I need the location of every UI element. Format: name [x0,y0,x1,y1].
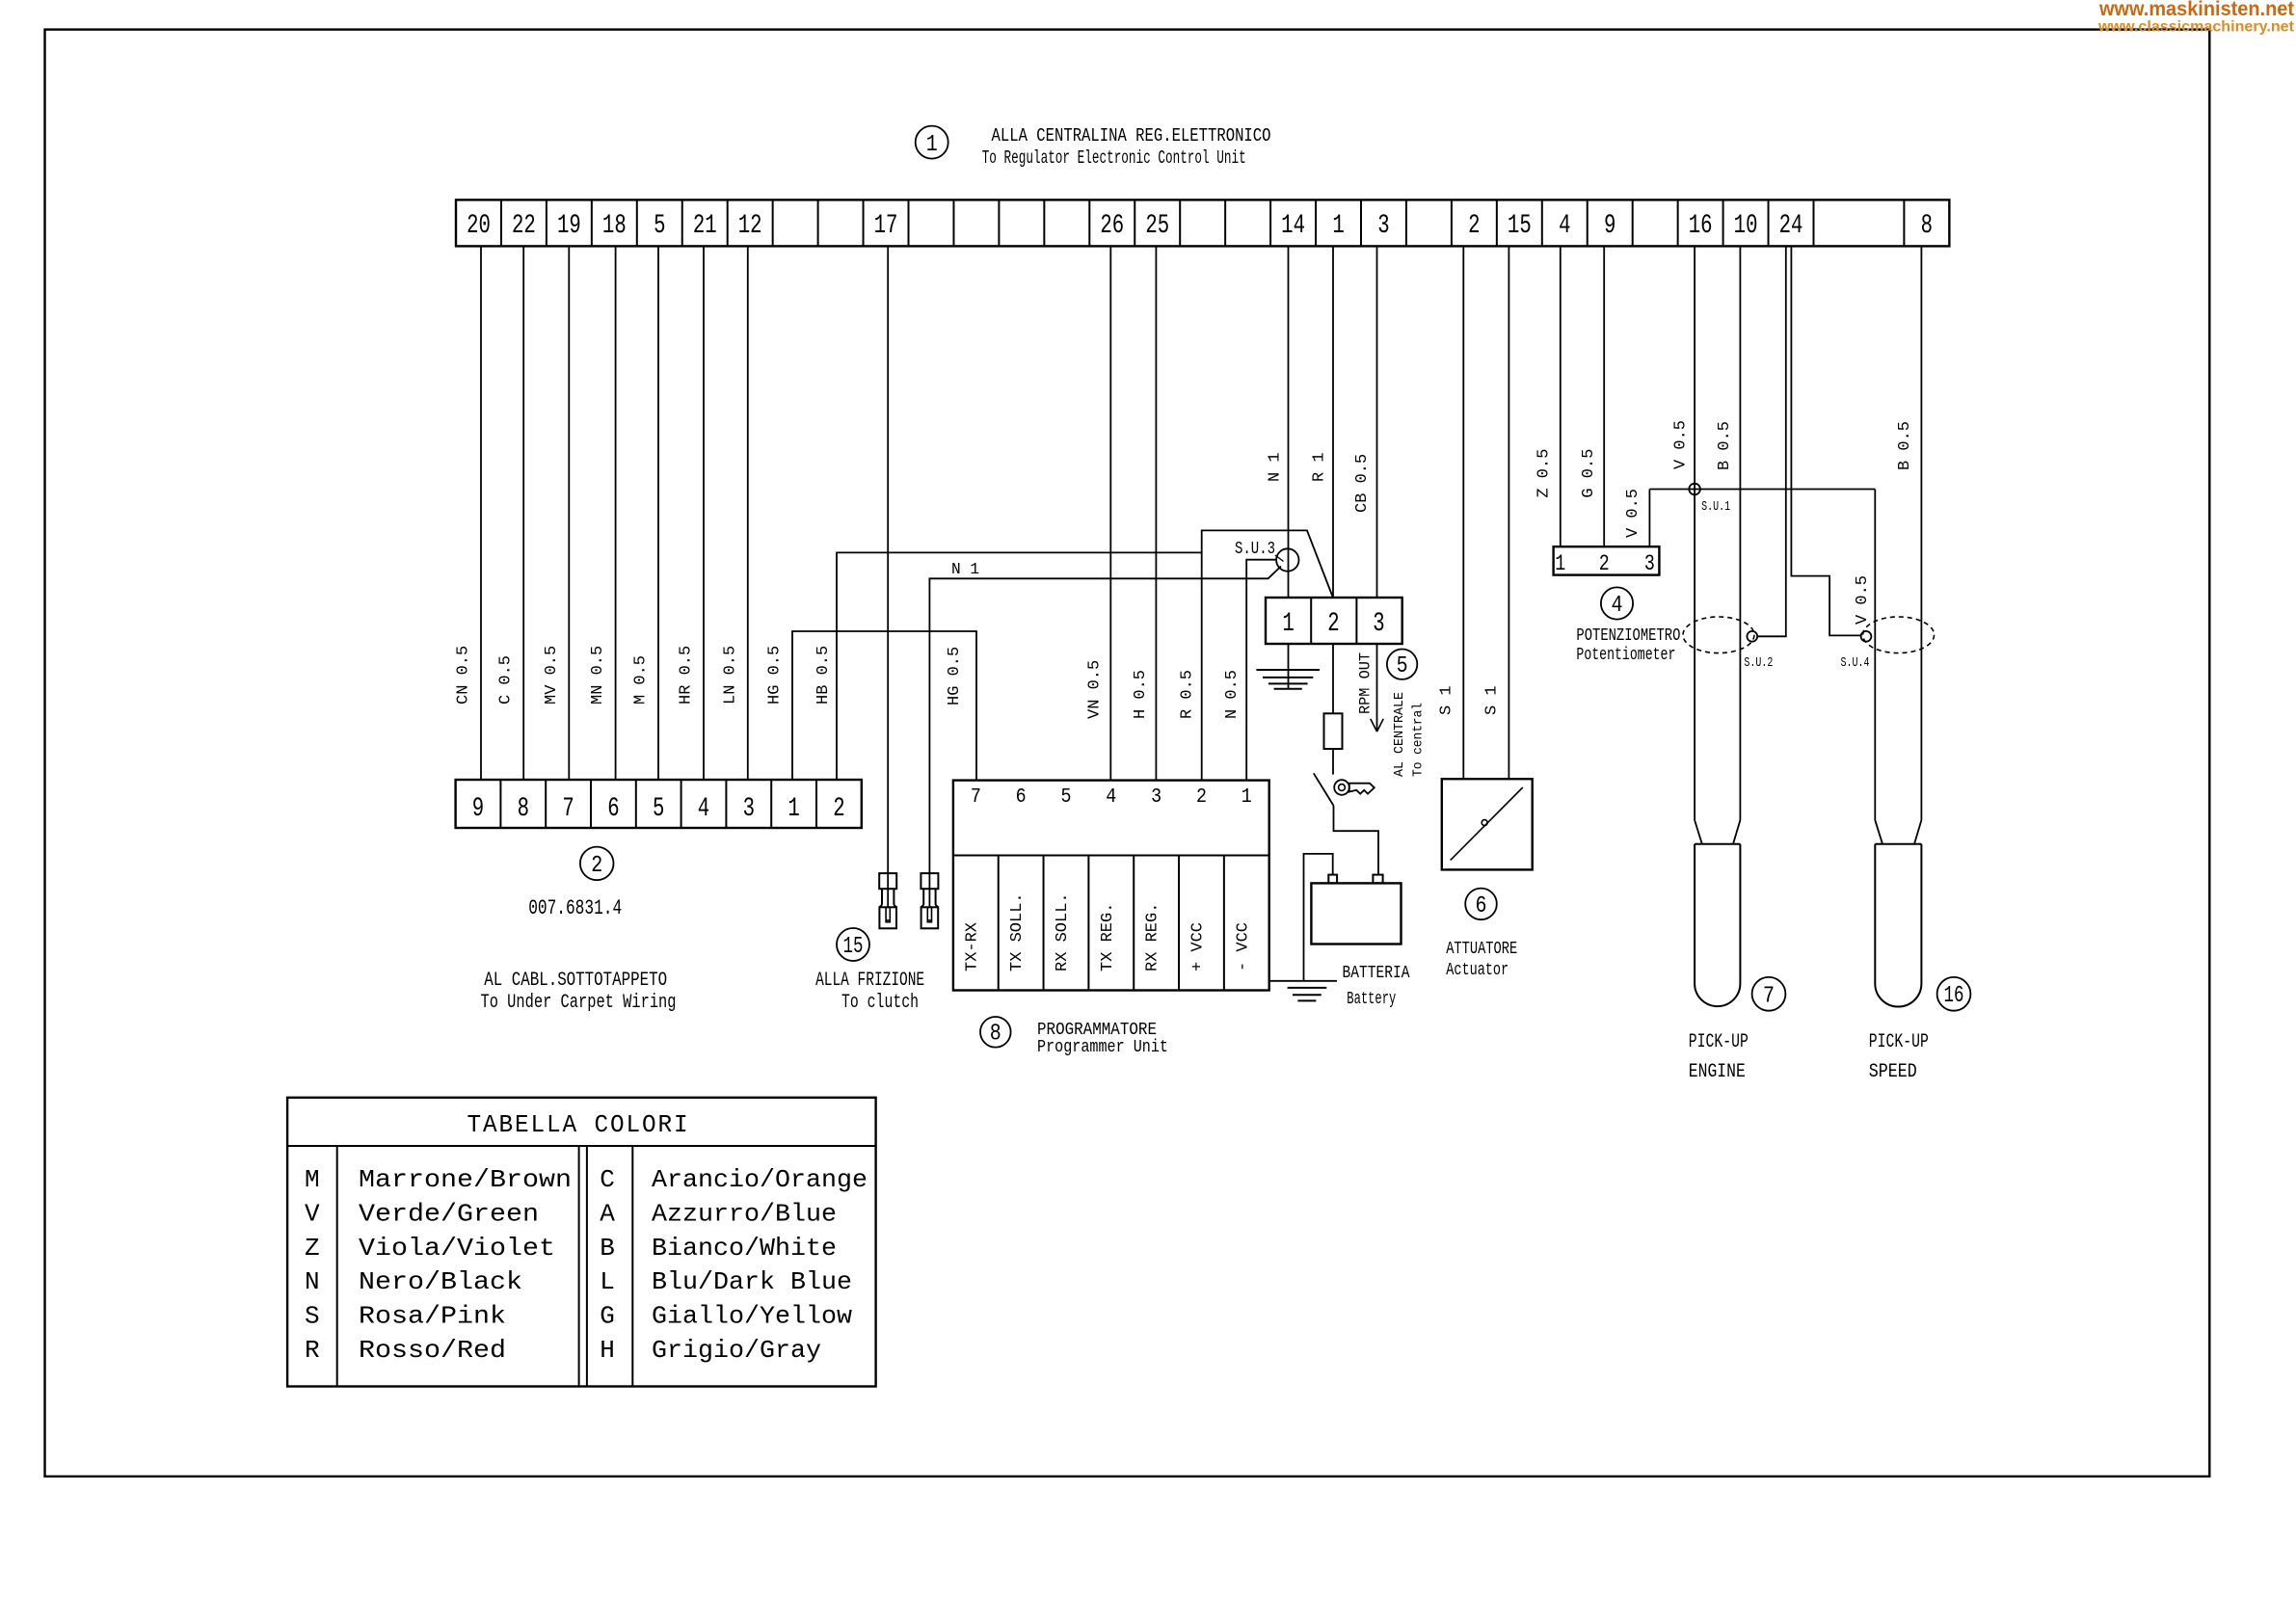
svg-text:S.U.3: S.U.3 [1235,540,1275,559]
label ATTUATORE [1446,940,1517,959]
svg-text:2: 2 [591,853,602,879]
callout circle 7 [1752,977,1786,1011]
svg-text:Nero/Black: Nero/Black [359,1267,522,1296]
programmer unit U8 connector [953,781,1269,991]
svg-text:2: 2 [1327,609,1339,639]
label ALLA FRIZIONE [815,970,924,992]
svg-text:2: 2 [833,794,844,824]
svg-text:AL CABL.SOTTOTAPPETO: AL CABL.SOTTOTAPPETO [484,970,667,992]
faston terminal A to clutch [879,873,896,928]
svg-text:Z 0.5: Z 0.5 [1535,449,1554,498]
svg-text:V 0.5: V 0.5 [1624,489,1642,538]
svg-text:TX REG.: TX REG. [1099,903,1117,971]
svg-text:N: N [305,1267,320,1296]
svg-text:Blu/Dark Blue: Blu/Dark Blue [652,1267,852,1296]
svg-text:N 1: N 1 [951,561,979,579]
junction S.U.4 [1841,631,1872,671]
wire G 0.5 pin9 to potentiometer pin2 [1580,246,1604,546]
wire N 0.5 programmer pin1 to junction S.U.3 [1223,560,1276,781]
svg-text:2: 2 [1468,211,1480,241]
svg-text:Giallo/Yellow: Giallo/Yellow [652,1302,852,1331]
label ENGINE [1689,1061,1746,1083]
svg-text:S.U.1: S.U.1 [1701,499,1730,515]
svg-text:Rosa/Pink: Rosa/Pink [359,1302,506,1331]
svg-text:Azzurro/Blue: Azzurro/Blue [652,1199,837,1228]
wire V 0.5 potentiometer pin3 to junction S.U.1 [1624,489,1649,546]
junction S.U.2 [1744,631,1773,671]
svg-text:RX REG.: RX REG. [1144,903,1162,971]
svg-text:C: C [600,1165,615,1194]
wire programmer -VCC to ground [1269,980,1337,982]
svg-text:HR 0.5: HR 0.5 [678,646,696,705]
color table TABELLA COLORI [287,1098,876,1387]
svg-text:S.U.4: S.U.4 [1841,655,1870,671]
svg-text:L: L [600,1267,615,1296]
svg-text:4: 4 [1106,786,1116,809]
svg-text:H 0.5: H 0.5 [1132,670,1150,719]
svg-text:PICK-UP: PICK-UP [1689,1031,1749,1053]
svg-text:5: 5 [654,211,665,241]
svg-text:Actuator: Actuator [1446,961,1508,980]
junction S.U.1 [1689,484,1730,515]
label SPEED [1869,1061,1917,1083]
label BATTERIA [1343,964,1410,983]
svg-text:V 0.5: V 0.5 [1672,420,1691,469]
svg-text:C 0.5: C 0.5 [497,655,516,705]
svg-text:1: 1 [1332,211,1344,241]
svg-text:3: 3 [743,794,755,824]
label Battery [1347,990,1396,1009]
label To Under Carpet Wiring [481,992,677,1014]
svg-text:V: V [305,1199,320,1228]
pickup speed coil oval [1863,617,1935,653]
svg-text:SPEED: SPEED [1869,1061,1917,1083]
wire N 1 clutch terminal to junction S.U.3 [929,561,1281,873]
svg-text:To Under Carpet Wiring: To Under Carpet Wiring [481,992,677,1014]
svg-text:POTENZIOMETRO: POTENZIOMETRO [1576,626,1680,646]
svg-text:Marrone/Brown: Marrone/Brown [359,1165,572,1194]
callout circle 16 [1937,977,1971,1011]
wire pin24 to junction S.U.2 [1757,246,1786,636]
svg-text:Rosso/Red: Rosso/Red [359,1336,506,1365]
svg-text:TX-RX: TX-RX [963,922,981,971]
svg-text:RPM OUT: RPM OUT [1357,652,1375,714]
svg-text:15: 15 [1508,211,1532,241]
svg-text:9: 9 [472,794,484,824]
label Potentiometer [1576,646,1675,665]
junction S.U.3 [1235,540,1299,572]
wire Z 0.5 pin4 to potentiometer pin1 [1535,246,1561,546]
label Actuator [1446,961,1508,980]
svg-text:- VCC: - VCC [1234,922,1252,971]
svg-text:TX SOLL.: TX SOLL. [1008,892,1027,971]
wire S 1 pin2 to actuator [1438,246,1464,779]
wire B 0.5 pin8 to pickup speed [1896,246,1921,820]
svg-text:R 0.5: R 0.5 [1179,670,1197,719]
svg-text:Bianco/White: Bianco/White [652,1234,837,1263]
svg-text:19: 19 [557,211,581,241]
svg-text:LN 0.5: LN 0.5 [721,646,739,705]
key switch S1 blade [1314,773,1334,806]
svg-text:MN 0.5: MN 0.5 [589,646,607,705]
label 007.6831.4 [528,896,622,920]
callout circle 15 [837,928,869,961]
svg-text:M: M [305,1165,320,1194]
key symbol [1334,780,1375,795]
svg-text:Programmer Unit: Programmer Unit [1037,1038,1168,1057]
svg-text:25: 25 [1145,211,1169,241]
svg-text:7: 7 [562,794,574,824]
fuse F1 [1324,644,1343,775]
wire B 0.5 pin10 to pickup engine [1716,246,1740,820]
svg-text:+ VCC: + VCC [1188,922,1207,971]
svg-text:4: 4 [698,794,709,824]
svg-text:S 1: S 1 [1438,685,1456,715]
wire M 0.5 pin5-pin5 [632,246,659,780]
battery B1 [1311,875,1401,945]
svg-text:16: 16 [1689,211,1713,241]
potentiometer R4 connector [1554,546,1660,576]
svg-text:To Regulator Electronic Contro: To Regulator Electronic Control Unit [982,147,1246,169]
svg-text:007.6831.4: 007.6831.4 [528,896,622,920]
svg-text:Battery: Battery [1347,990,1396,1009]
svg-text:Viola/Violet: Viola/Violet [359,1234,555,1263]
title ALLA CENTRALINA [992,125,1271,146]
title To Regulator [982,147,1246,169]
wire HR 0.5 pin21-pin4 [678,246,705,780]
svg-text:BATTERIA: BATTERIA [1343,964,1410,983]
svg-text:3: 3 [1644,551,1655,576]
svg-text:ATTUATORE: ATTUATORE [1446,940,1517,959]
label To central [1411,703,1427,777]
svg-text:5: 5 [1397,653,1408,679]
svg-text:14: 14 [1281,211,1305,241]
svg-text:www.classicmachinery.net: www.classicmachinery.net [2097,19,2295,36]
pickup speed probe body [1875,820,1921,1007]
svg-text:Potentiometer: Potentiometer [1576,646,1675,665]
wire R 0.5 programmer pin2 to battery node [1179,552,1202,780]
svg-text:RX SOLL.: RX SOLL. [1054,892,1072,971]
svg-text:V 0.5: V 0.5 [1854,575,1872,625]
svg-text:20: 20 [467,211,491,241]
actuator M6 box [1442,779,1533,869]
callout circle 1 [916,126,948,159]
wire CN 0.5 pin20-pin9 [455,246,482,780]
svg-text:S: S [305,1302,320,1331]
svg-text:N 0.5: N 0.5 [1223,670,1241,719]
wire key switch to battery + [1334,806,1379,875]
wire V 0.5 pin16 to pickup engine [1672,246,1695,820]
svg-text:R 1: R 1 [1311,452,1329,482]
svg-text:3: 3 [1151,786,1161,809]
svg-text:1: 1 [1282,609,1294,639]
svg-text:24: 24 [1779,211,1803,241]
svg-text:8: 8 [990,1022,1001,1048]
callout circle 6 [1465,889,1497,920]
svg-text:A: A [600,1199,615,1228]
svg-text:To central: To central [1411,703,1427,777]
svg-text:www.maskinisten.net: www.maskinisten.net [2098,0,2294,20]
website watermark maskinisten [2098,0,2294,20]
svg-text:B 0.5: B 0.5 [1716,421,1734,470]
wire N 1 pin14 to connector3 pin1 [1267,246,1289,598]
svg-text:6: 6 [1016,786,1027,809]
svg-text:4: 4 [1559,211,1570,241]
wire pin24 to junction S.U.4 [1791,246,1872,635]
wire CB 0.5 pin3 to connector3 pin3 [1353,246,1377,598]
wire LN 0.5 pin12-pin3 [721,246,748,780]
label PROGRAMMATORE [1037,1021,1157,1040]
svg-text:8: 8 [518,794,529,824]
svg-text:3: 3 [1373,609,1384,639]
svg-text:VN 0.5: VN 0.5 [1086,660,1105,719]
callout circle 2 [580,847,614,881]
svg-text:21: 21 [693,211,717,241]
svg-text:5: 5 [1060,786,1071,809]
connector X2 under-carpet 007.6831.4 [456,780,862,828]
svg-text:Z: Z [305,1234,320,1263]
svg-text:1: 1 [1555,551,1565,576]
svg-text:1: 1 [926,132,938,158]
svg-text:3: 3 [1377,211,1389,241]
svg-text:9: 9 [1604,211,1615,241]
svg-text:6: 6 [607,794,619,824]
callout circle 8 [980,1017,1011,1048]
callout circle 5 [1387,650,1417,680]
pickup engine probe body [1695,820,1740,1006]
svg-text:HB 0.5: HB 0.5 [814,646,833,705]
wire battery - to ground [1304,854,1333,981]
svg-text:G: G [600,1302,615,1331]
label To clutch [841,992,919,1014]
svg-text:PICK-UP: PICK-UP [1869,1031,1929,1053]
svg-text:1: 1 [1241,786,1252,809]
svg-text:7: 7 [971,786,981,809]
svg-text:17: 17 [874,211,898,241]
wire MV 0.5 pin19-pin7 [543,246,570,780]
wire HG 0.5 connector2 pin1 to programmer pin7 [766,631,977,781]
wire V 0.5 junction S.U.1 bus [1649,489,1875,491]
label PICK-UP speed [1869,1031,1929,1053]
svg-text:CB 0.5: CB 0.5 [1353,454,1372,513]
faston terminal B to clutch [921,873,938,928]
wire H 0.5 pin25 to programmer pin3 [1132,246,1156,780]
svg-text:HG 0.5: HG 0.5 [766,646,785,705]
svg-text:M 0.5: M 0.5 [632,655,651,705]
svg-text:HG 0.5: HG 0.5 [946,647,964,705]
svg-text:MV 0.5: MV 0.5 [543,646,561,705]
svg-text:18: 18 [602,211,627,241]
pickup engine coil oval [1683,617,1754,653]
svg-text:6: 6 [1476,893,1487,919]
svg-text:AL CENTRALE: AL CENTRALE [1392,692,1407,777]
svg-text:10: 10 [1734,211,1758,241]
wire V 0.5 junction S.U.1 to pickup speed [1874,490,1876,821]
svg-text:S 1: S 1 [1483,685,1502,715]
connector X3 (1 2 3) [1266,598,1402,644]
svg-text:4: 4 [1612,593,1623,619]
svg-text:Grigio/Gray: Grigio/Gray [652,1336,821,1365]
wire HB 0.5 connector2 pin2 to connector3 pin2 [814,530,1333,780]
label POTENZIOMETRO [1576,626,1680,646]
svg-text:ENGINE: ENGINE [1689,1061,1746,1083]
svg-text:PROGRAMMATORE: PROGRAMMATORE [1037,1021,1157,1040]
ground (battery) [1288,988,1327,1001]
svg-text:2: 2 [1196,786,1207,809]
label AL CENTRALE [1392,692,1407,777]
wire MN 0.5 pin18-pin6 [589,246,616,780]
svg-text:S.U.2: S.U.2 [1744,655,1773,671]
callout circle 4 [1601,587,1633,619]
wire S 1 pin15 to actuator [1483,246,1509,779]
svg-text:15: 15 [843,934,864,960]
label Programmer Unit [1037,1038,1168,1057]
svg-text:26: 26 [1100,211,1124,241]
svg-text:H: H [600,1336,615,1365]
svg-text:Arancio/Orange: Arancio/Orange [652,1165,868,1194]
wire C 0.5 pin22-pin8 [497,246,524,780]
label AL CABL.SOTTOTAPPETO [484,970,667,992]
ground (connector3 pin1) [1256,644,1320,689]
svg-text:N 1: N 1 [1267,452,1285,482]
svg-text:ALLA CENTRALINA REG.ELETTRONIC: ALLA CENTRALINA REG.ELETTRONICO [992,125,1271,146]
svg-text:7: 7 [1763,984,1775,1010]
website watermark classicmachinery [2097,19,2295,36]
wire RPM OUT (connector3 pin3 to central) [1357,644,1384,732]
wire VN 0.5 pin26 to programmer pin4 [1086,246,1111,780]
svg-text:G 0.5: G 0.5 [1580,449,1598,498]
svg-text:8: 8 [1921,211,1933,241]
svg-text:R: R [305,1336,320,1365]
svg-text:CN 0.5: CN 0.5 [455,646,473,705]
wire R 1 pin1 to connector3 pin2 [1311,246,1334,598]
svg-text:2: 2 [1599,551,1610,576]
svg-text:B 0.5: B 0.5 [1896,421,1914,470]
wire HG 0.5 pin17 to clutch terminal [887,246,889,873]
svg-text:Verde/Green: Verde/Green [359,1199,539,1228]
connector X1 to regulator ECU (pin strip) [456,200,1949,246]
svg-text:12: 12 [738,211,762,241]
svg-text:5: 5 [653,794,664,824]
svg-text:B: B [600,1234,615,1263]
svg-text:TABELLA COLORI: TABELLA COLORI [467,1110,690,1139]
svg-text:To clutch: To clutch [841,992,919,1014]
label PICK-UP engine [1689,1031,1749,1053]
svg-text:22: 22 [512,211,536,241]
svg-text:16: 16 [1944,983,1964,1009]
svg-text:ALLA FRIZIONE: ALLA FRIZIONE [815,970,924,992]
svg-text:1: 1 [788,794,799,824]
